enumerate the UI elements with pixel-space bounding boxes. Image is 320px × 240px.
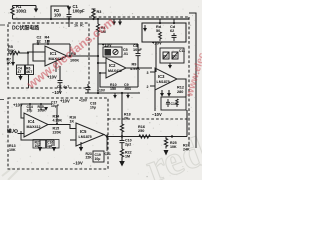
ground arrow under C4	[20, 74, 22, 76]
svg-text:+10V: +10V	[60, 99, 70, 104]
svg-text:10μF: 10μF	[133, 48, 143, 52]
junction stubs mid rail	[114, 19, 120, 22]
svg-text:MAX412: MAX412	[108, 69, 122, 73]
feedback C17 over IC4	[56, 107, 58, 124]
svg-text:50: 50	[156, 29, 160, 33]
svg-text:10μ: 10μ	[95, 157, 101, 161]
input terminal	[15, 130, 18, 133]
capacitor C1	[67, 11, 72, 28]
wire y=93 mid	[85, 92, 140, 94]
vertical bus x=98	[97, 19, 139, 93]
resistor R3	[92, 9, 96, 19]
inverting input wire	[33, 44, 45, 61]
svg-text:R3: R3	[97, 10, 102, 14]
svg-text:24K: 24K	[183, 148, 190, 152]
svg-text:220K: 220K	[53, 130, 62, 134]
svg-text:100K: 100K	[38, 109, 47, 113]
svg-text:C7: C7	[57, 85, 62, 89]
bottom cluster R21 C16	[21, 131, 54, 146]
svg-text:IC4: IC4	[28, 119, 35, 124]
svg-text:D2: D2	[173, 55, 177, 59]
svg-text:C11: C11	[179, 49, 185, 53]
svg-text:+10V: +10V	[152, 41, 162, 46]
resistor to ground x=162	[164, 137, 167, 149]
svg-text:280: 280	[177, 90, 183, 94]
IC5 ground leg	[80, 142, 82, 147]
IC2 output wire	[126, 67, 152, 69]
svg-text:.001: .001	[124, 87, 131, 91]
svg-text:−10V: −10V	[73, 161, 83, 166]
svg-text:1K: 1K	[70, 119, 75, 123]
margin marks	[0, 25, 5, 100]
wire top rail y=19	[13, 18, 190, 20]
svg-text:R:: R:	[80, 24, 84, 28]
svg-text:DC伏服电路: DC伏服电路	[12, 25, 40, 32]
parts row C14 R15	[21, 104, 52, 110]
svg-text:1M: 1M	[125, 155, 130, 159]
solid outer border right	[189, 13, 196, 148]
svg-text:10μ: 10μ	[27, 109, 33, 113]
svg-text:22K: 22K	[86, 156, 93, 160]
svg-text:2: 2	[147, 85, 149, 89]
C4 R6 cluster below	[17, 53, 34, 88]
op-amp IC2	[98, 58, 126, 78]
svg-text:−10V: −10V	[152, 112, 162, 117]
svg-text:−10V: −10V	[52, 90, 62, 95]
bottom right solid box	[161, 97, 186, 110]
capacitor C10	[120, 137, 125, 150]
svg-text:D1: D1	[164, 55, 168, 59]
svg-text:输入: 输入	[7, 128, 17, 135]
lower feedback R10 C9	[100, 68, 138, 87]
node arrow at x=36	[35, 7, 37, 9]
op-amp IC1	[45, 46, 67, 66]
supply stubs on mid wire	[115, 93, 128, 95]
svg-text:150: 150	[110, 87, 116, 91]
svg-text:10μF: 10μF	[51, 104, 59, 108]
svg-text:100pF: 100pF	[73, 8, 86, 13]
dashed right edge	[188, 17, 190, 147]
diode box D1 VR1	[160, 48, 184, 65]
svg-text:.01: .01	[123, 52, 128, 56]
svg-text:IC5: IC5	[80, 129, 87, 134]
feedback box under IC5	[93, 135, 107, 163]
IC5 output main wire	[104, 135, 187, 137]
feedback parts C2 R4 above IC1	[38, 40, 70, 44]
resistor R7 to ground	[12, 53, 14, 62]
svg-text:1K: 1K	[7, 61, 12, 65]
svg-text:IC3: IC3	[158, 74, 165, 79]
arrowhead into C1	[67, 7, 71, 12]
svg-text:2μ2: 2μ2	[125, 143, 131, 147]
svg-text:LM1875: LM1875	[157, 80, 170, 84]
gray logo watermark bottom-left	[2, 168, 18, 180]
svg-text:2K: 2K	[124, 117, 129, 121]
svg-text:4.99K: 4.99K	[53, 118, 63, 122]
op-amp IC3	[150, 68, 177, 90]
svg-text:C13: C13	[171, 102, 177, 106]
output wire IC1 with R8	[67, 55, 98, 57]
svg-text:100: 100	[54, 12, 62, 17]
svg-text:47: 47	[18, 70, 22, 74]
svg-text:3: 3	[147, 71, 149, 75]
cap at x=88 crossing box bottom	[86, 84, 91, 93]
svg-text:4μ7: 4μ7	[63, 85, 69, 89]
capacitor C8	[136, 44, 141, 61]
dashed box A (DC servo block)	[8, 23, 89, 88]
svg-text:20K: 20K	[8, 49, 15, 53]
resistor inside box	[159, 32, 177, 41]
node dot C1/rail	[68, 18, 70, 20]
svg-text:10K: 10K	[9, 148, 16, 152]
svg-text:22: 22	[37, 40, 41, 44]
svg-text:10μ: 10μ	[90, 105, 96, 109]
resistor R2 (branch to top)	[51, 6, 69, 19]
op-amp IC5	[70, 123, 104, 146]
dashed divider y=119	[108, 118, 189, 120]
resistor R22	[120, 149, 123, 158]
scan noise	[2, 5, 199, 178]
svg-text:250: 250	[138, 129, 144, 133]
svg-text:C21: C21	[105, 152, 111, 156]
svg-text:+10V: +10V	[79, 99, 88, 103]
svg-text:MAX412: MAX412	[27, 125, 41, 129]
input resistor R5	[8, 51, 45, 54]
trimmer box	[103, 47, 122, 57]
svg-text:LM1875: LM1875	[79, 135, 92, 139]
wire top loop from R1	[13, 6, 37, 8]
supply arrows under IC3	[162, 90, 169, 93]
resistor R1	[11, 6, 14, 20]
capacitor C7 at box A bottom	[58, 66, 63, 93]
op-amp IC4	[18, 104, 49, 137]
dashed box B (input block)	[8, 98, 108, 169]
svg-text:IC2: IC2	[109, 63, 116, 68]
IC4 output wire to IC5	[48, 125, 76, 129]
svg-text:100Ω: 100Ω	[16, 9, 27, 14]
IC3 output	[177, 79, 186, 97]
resistor R16 inline	[139, 135, 150, 138]
arrowhead x36	[34, 9, 38, 13]
dashed top edge right section	[89, 17, 189, 147]
feedback down to output	[69, 44, 71, 56]
ground arrow R22	[121, 158, 123, 161]
svg-text:62: 62	[170, 29, 174, 33]
svg-text:1M: 1M	[45, 40, 50, 44]
small resistor between blocks	[120, 93, 123, 137]
svg-text:10K: 10K	[170, 145, 177, 149]
